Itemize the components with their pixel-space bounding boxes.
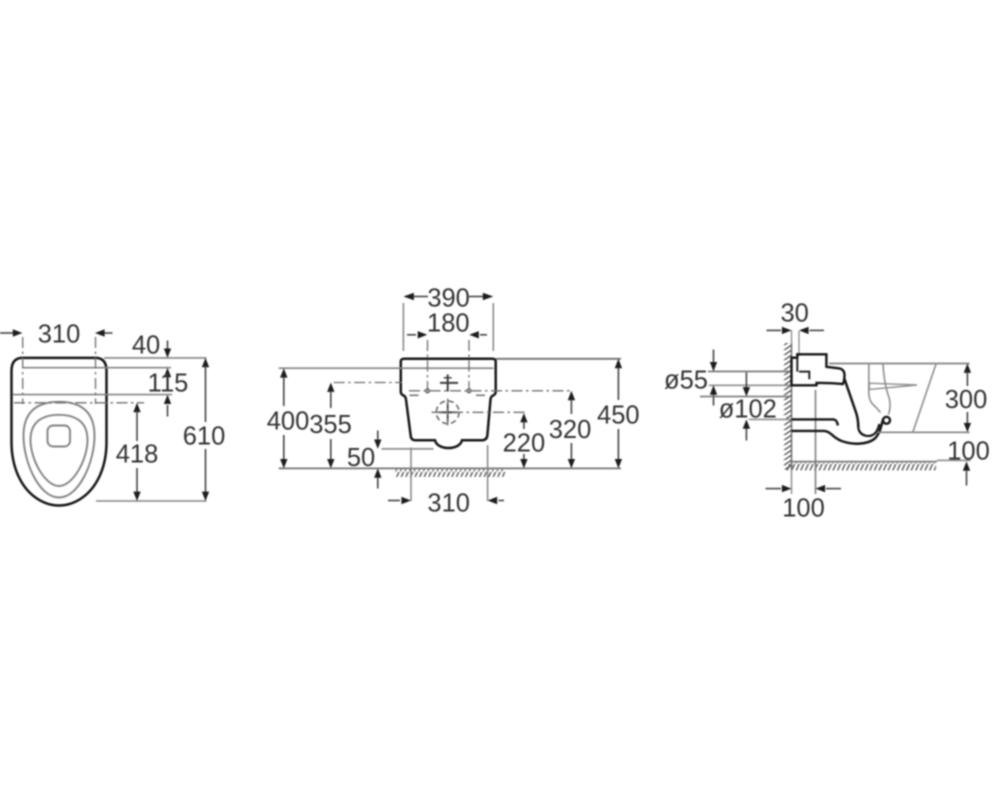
flush pipe top line ø55 — [708, 370, 792, 372]
floor hatch — [785, 463, 936, 471]
flush inlet inner lines — [797, 358, 809, 380]
dim 610 — [202, 358, 209, 367]
trap outer curve — [832, 419, 884, 444]
outlet stub top — [792, 419, 838, 425]
hinge hole left — [426, 389, 430, 393]
bottom lip line 50 — [382, 448, 434, 450]
svg-text:115: 115 — [148, 370, 189, 398]
dim 320 — [568, 391, 575, 400]
reference line 115 offset — [13, 394, 172, 396]
dim 100 bottom — [766, 488, 782, 490]
svg-text:ø102: ø102 — [719, 396, 777, 424]
inner rim top line + 400 reference — [279, 367, 494, 369]
hinge axis horizontal to 320 — [409, 390, 572, 392]
upper ceramic block — [792, 354, 845, 385]
hinge hole centerline left — [427, 340, 429, 393]
wall face line — [791, 343, 793, 470]
seat opening outer rim — [24, 402, 95, 498]
right shoulder line — [476, 394, 485, 396]
outlet pipe bottom line ø102 — [749, 418, 792, 420]
svg-text:40: 40 — [132, 332, 160, 360]
svg-text:30: 30 — [781, 300, 809, 328]
hinge hole centerline right — [468, 340, 470, 393]
supply circle — [436, 401, 459, 424]
toilet front outline — [401, 359, 496, 448]
wall face extension up — [791, 330, 793, 344]
svg-text:400: 400 — [267, 408, 310, 436]
svg-text:610: 610 — [183, 423, 226, 451]
left shoulder line — [410, 394, 419, 396]
dim 400 — [280, 368, 287, 377]
top reference line to 610 — [104, 357, 207, 359]
supply centerline vertical — [447, 399, 449, 428]
svg-text:220: 220 — [503, 430, 546, 458]
outlet pipe top line ø102 — [700, 396, 792, 398]
reference line 40 offset — [22, 367, 171, 369]
svg-text:100: 100 — [782, 495, 825, 523]
soil pipe axis line — [815, 390, 817, 494]
hinge hole right — [467, 389, 471, 393]
dim ø102 — [745, 373, 747, 389]
trap inner curve — [858, 424, 879, 436]
svg-text:ø55: ø55 — [664, 367, 708, 395]
dim 390 — [402, 303, 404, 351]
hinge centerline vertical right — [95, 337, 97, 404]
svg-text:300: 300 — [945, 386, 988, 414]
ground hatch — [395, 469, 506, 477]
ground line — [279, 467, 621, 469]
trap sight hole — [48, 426, 71, 447]
supply centerline horizontal to 220 — [432, 411, 528, 413]
bottom reference line to 610 — [96, 500, 207, 502]
seat top reference line 300 — [829, 363, 970, 365]
hinge centerline horizontal — [14, 402, 144, 404]
dim 418 — [133, 403, 140, 412]
supply circle cross — [439, 403, 458, 422]
wall extension below floor — [791, 470, 793, 495]
bowl rear slope — [913, 364, 936, 433]
bowl inner left line — [869, 364, 881, 413]
svg-text:450: 450 — [597, 402, 640, 430]
svg-text:100: 100 — [947, 438, 990, 466]
svg-text:310: 310 — [427, 490, 470, 518]
flush pipe bottom line ø55 — [709, 384, 792, 386]
bowl wall cap — [883, 417, 890, 424]
svg-text:310: 310 — [38, 321, 81, 349]
wall hatch — [784, 343, 792, 470]
svg-text:418: 418 — [116, 441, 159, 469]
dim 220 — [520, 413, 527, 422]
water inlet cross — [440, 375, 458, 392]
dim ø55 — [713, 350, 715, 364]
wall 30 extension line — [798, 331, 800, 356]
dim 355 — [327, 383, 334, 392]
dim 310 plan — [0, 332, 113, 334]
hinge centerline vertical left — [22, 337, 24, 404]
seat opening inner rim — [31, 415, 88, 486]
inlet centerline 355 — [334, 382, 402, 384]
dim 50 — [377, 431, 379, 441]
floor line — [792, 461, 938, 463]
outlet stub bottom — [792, 431, 832, 435]
svg-text:320: 320 — [549, 416, 592, 444]
bowl inner curve — [883, 364, 890, 415]
toilet plan outline — [12, 358, 107, 506]
seat section wedge — [869, 383, 917, 389]
svg-text:50: 50 — [347, 444, 375, 472]
svg-text:180: 180 — [427, 310, 470, 338]
dim 30 — [767, 329, 782, 331]
trap diagonal — [845, 379, 859, 428]
svg-text:355: 355 — [309, 411, 352, 439]
dim 310 bottom — [410, 448, 412, 502]
dim 300 — [964, 364, 971, 373]
floor reference to right dims — [937, 459, 971, 461]
bowl bottom reference line — [878, 431, 970, 433]
dim 450 — [615, 359, 622, 368]
top edge reference to 450 — [496, 358, 621, 360]
dim 40 — [167, 341, 169, 350]
svg-text:390: 390 — [427, 285, 470, 313]
